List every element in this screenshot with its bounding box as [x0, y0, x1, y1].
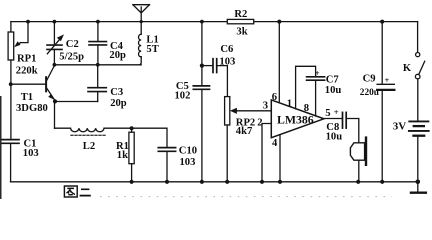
svg-text:3V: 3V [393, 121, 407, 133]
scan artifact left edge [0, 96, 2, 199]
wire top rail right of R2 [254, 21, 418, 23]
node dot collector / tank bottom [53, 63, 57, 67]
svg-text:10u: 10u [325, 85, 342, 96]
wire left branch: rail corner down to RP1 [10, 22, 12, 32]
op-amp U1 LM386 triangle [271, 100, 324, 138]
svg-text:T1: T1 [21, 92, 33, 103]
node dot pin2 ground [260, 180, 264, 184]
wire C3 top lead [97, 65, 99, 88]
node dot C3 top junction [96, 63, 100, 67]
wire C10 to ground rail [166, 151, 168, 182]
svg-text:C7: C7 [326, 75, 340, 86]
svg-text:5T: 5T [146, 44, 158, 55]
wire C9 to ground rail [381, 90, 383, 182]
wire RP1 bottom to base node and C1 [10, 60, 12, 139]
node dot C2 top on rail [53, 20, 57, 24]
svg-text:RP1: RP1 [17, 54, 36, 65]
capacitor C6 plates [212, 59, 214, 73]
svg-text:+: + [334, 107, 339, 117]
inductor L2 core dashed line [71, 134, 106, 136]
svg-text:5: 5 [325, 108, 330, 119]
svg-text:3DG80: 3DG80 [16, 103, 48, 114]
wire tank line collector to L1 [54, 64, 141, 66]
node dot C4 top on rail [96, 20, 100, 24]
wire pin 2 to ground [262, 124, 271, 182]
transistor T1 collector stroke [47, 65, 55, 81]
wire C6 to RP2 top [217, 66, 228, 97]
wire junction to C6 [202, 65, 213, 67]
svg-text:5/25p: 5/25p [59, 51, 84, 62]
node dot RP2 ground [225, 180, 229, 184]
ground symbol [417, 182, 419, 192]
capacitor C2 arrow (variable) [47, 38, 61, 54]
capacitor C10 plates [158, 147, 175, 149]
wire detector node drop from rail [201, 22, 203, 86]
node dot battery ground junction [416, 180, 421, 185]
svg-text:103: 103 [23, 148, 39, 159]
capacitor C4 top wire [97, 22, 99, 42]
wire switch to battery [417, 79, 419, 121]
svg-text:+: + [315, 68, 320, 78]
svg-text:10u: 10u [326, 132, 343, 143]
node dot C5/C6 junction [200, 64, 204, 68]
wire emitter to C3 bottom [55, 101, 98, 103]
node dot RP1 wiper on rail [26, 20, 30, 24]
wire C3 bottom to emitter line [97, 92, 99, 102]
node dot C10 ground [165, 180, 169, 184]
speaker bar [365, 138, 367, 165]
node dot antenna on rail [140, 20, 143, 23]
svg-text:C10: C10 [179, 145, 197, 156]
svg-text:20p: 20p [110, 98, 127, 109]
wire R1 to ground rail [131, 164, 133, 182]
wire bottom ground rail [11, 181, 419, 183]
wire L1 bottom to tank line [140, 57, 141, 65]
antenna symbol [133, 4, 150, 6]
node dot C9 top on rail [380, 20, 384, 24]
wire pin6 supply from rail [278, 22, 280, 104]
capacitor C5 plates [193, 85, 209, 87]
node dot speaker ground [356, 180, 360, 184]
svg-text:1k: 1k [117, 150, 128, 161]
wire base node to T1 base [11, 83, 45, 85]
wire C8 to speaker [346, 119, 359, 143]
scan artifact bottom dotted row [100, 196, 392, 198]
potentiometer RP2 body [225, 97, 230, 125]
wire emitter drop to L2 [54, 102, 56, 129]
svg-text:C3: C3 [110, 87, 123, 98]
svg-text:103: 103 [180, 157, 196, 168]
svg-text:+: + [385, 75, 390, 85]
wire antenna stem [140, 13, 142, 34]
svg-text:LM386: LM386 [277, 112, 314, 126]
wire speaker to ground [358, 160, 360, 182]
svg-text:103: 103 [219, 57, 235, 68]
svg-text:8: 8 [304, 103, 309, 114]
capacitor C2 plates [47, 44, 62, 46]
transistor Q1/T1 base bar [45, 77, 47, 91]
wire top rail left of R2 [11, 21, 227, 23]
transistor T1 emitter stroke with arrow [47, 88, 55, 101]
svg-text:C2: C2 [66, 39, 79, 50]
wire battery to ground rail [417, 137, 419, 182]
svg-text:4k7: 4k7 [236, 126, 253, 137]
node dot C9 ground [380, 180, 384, 184]
node dot emitter junction [53, 99, 57, 103]
node dot detector tap on rail [200, 20, 204, 24]
capacitor C7 plates [307, 76, 325, 78]
svg-text:6: 6 [272, 92, 277, 103]
svg-text:C6: C6 [220, 44, 233, 55]
node dot base junction [9, 82, 13, 86]
potentiometer RP1 body [8, 32, 14, 60]
switch K blade [419, 61, 425, 74]
wire RP2 bottom to ground [226, 125, 228, 182]
node dot L2 / R1 top [130, 126, 134, 130]
wire pin 4 to ground [279, 135, 281, 182]
wire C7 bottom to pin 8 [315, 80, 317, 116]
node dot pin4 ground [278, 180, 282, 184]
inductor L1 coil [139, 34, 142, 57]
speaker body [350, 143, 364, 160]
capacitor C3 plates [88, 87, 106, 89]
svg-text:1: 1 [287, 98, 292, 109]
potentiometer RP2 wiper arrow to pin 3 [236, 110, 271, 112]
wire C5 to ground rail [201, 89, 203, 182]
capacitor C8 plates [342, 112, 344, 128]
svg-text:220u: 220u [360, 88, 379, 98]
wire C4 bottom to tank line [97, 45, 99, 65]
potentiometer RP1 wiper arrow from top rail [21, 22, 29, 43]
resistor R2 body [227, 19, 253, 23]
svg-text:3: 3 [263, 100, 268, 111]
node dot R1 ground [130, 180, 134, 184]
capacitor C1 plates [2, 139, 19, 141]
wire right branch rail corner to switch [417, 22, 419, 53]
svg-text:R2: R2 [234, 9, 247, 20]
wire C1 to ground rail [10, 143, 12, 182]
wire L2 node to C10 [132, 128, 167, 147]
svg-text:220k: 220k [16, 66, 38, 77]
capacitor C4 plates [89, 41, 107, 43]
node dot C5 ground [200, 180, 204, 184]
wire C9 branch from rail [381, 22, 383, 85]
switch K contacts [416, 53, 420, 57]
wire pin1 stub up [296, 66, 316, 109]
svg-text:L2: L2 [83, 141, 95, 152]
wire C2 bottom to collector node [53, 49, 55, 64]
node dot pin6 on rail [277, 20, 281, 24]
capacitor C9 plates [377, 83, 394, 85]
variable capacitor C2 top wire [53, 22, 55, 45]
svg-text:4: 4 [272, 138, 278, 149]
inductor L2 coil [55, 128, 132, 132]
svg-text:K: K [403, 63, 412, 74]
wire pin 5 output [324, 118, 342, 120]
battery B1 3V plates [409, 120, 428, 122]
svg-text:102: 102 [175, 90, 191, 101]
resistor R1 body [131, 128, 133, 132]
svg-text:20p: 20p [109, 50, 126, 61]
svg-text:C9: C9 [363, 74, 376, 85]
svg-text:2: 2 [257, 118, 262, 129]
caption 图二 (drawn glyphs) [64, 186, 90, 197]
svg-text:3k: 3k [236, 27, 247, 38]
